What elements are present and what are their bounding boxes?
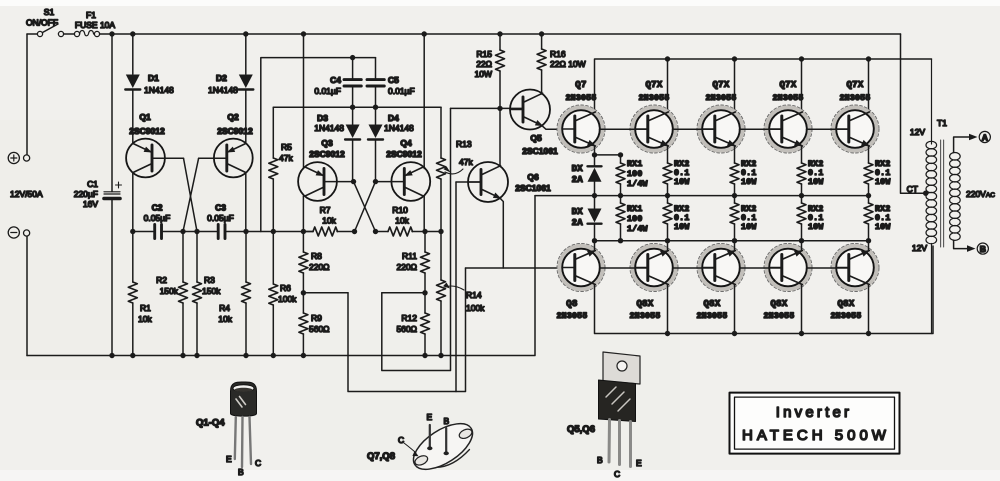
svg-text:2SC9012: 2SC9012 — [217, 126, 253, 136]
svg-text:C: C — [398, 435, 404, 445]
wire: C4/C5 top node to row — [261, 58, 376, 232]
svg-text:E: E — [636, 458, 642, 468]
svg-text:Q7,Q8: Q7,Q8 — [367, 451, 395, 462]
svg-text:B: B — [597, 455, 603, 465]
svg-text:DX: DX — [572, 164, 584, 174]
resistor RX2 0.1 10W (col2 lower) — [730, 196, 757, 241]
wire: emitter bus mid rail y=195.6 — [535, 195, 869, 197]
wire: top row base bus segments — [600, 128, 850, 130]
wire: Q6 base vertical to outer U — [455, 182, 457, 392]
resistor R2 150k — [179, 282, 188, 303]
junction dots on 107 row — [350, 105, 378, 110]
wire switch to fuse — [64, 33, 75, 35]
resistor RX2 0.1 10W (col1 lower) — [663, 196, 690, 241]
wire: bottom row emitter bus y=240.7 — [595, 240, 869, 242]
wire: bottom row emitter risers — [595, 241, 869, 251]
svg-text:Q8X: Q8X — [703, 299, 720, 309]
wire: Q1 collector down to node — [132, 173, 134, 232]
svg-text:12V/50A: 12V/50A — [10, 189, 43, 199]
svg-text:FUSE 10A: FUSE 10A — [75, 20, 115, 30]
svg-text:R2: R2 — [156, 275, 167, 285]
svg-text:E: E — [226, 454, 232, 464]
svg-text:2N3055: 2N3055 — [840, 94, 871, 103]
svg-text:0.1: 0.1 — [875, 214, 891, 223]
svg-text:2N3055: 2N3055 — [706, 94, 737, 103]
transistor Q8X 2N3055 (col 4) — [831, 244, 879, 292]
svg-text:B: B — [238, 467, 244, 477]
svg-text:2SC9012: 2SC9012 — [386, 149, 422, 159]
svg-text:1N4148: 1N4148 — [314, 123, 344, 133]
svg-text:R6: R6 — [280, 283, 291, 293]
svg-text:Q2: Q2 — [227, 112, 239, 122]
resistor RX2 0.1 10W (col2 upper) — [730, 146, 757, 196]
transistor Q8X 2N3055 (col 1) — [630, 244, 678, 292]
svg-text:R10: R10 — [392, 205, 408, 215]
wire: cross diagonal Q2 base to node — [183, 158, 199, 231]
svg-text:10k: 10k — [218, 314, 232, 324]
wire: ground bottom rail — [27, 196, 535, 356]
svg-text:1N4148: 1N4148 — [208, 85, 238, 95]
transformer T1 secondary winding — [950, 153, 961, 241]
transistor Q6 2SC1061 — [468, 162, 508, 202]
svg-text:D1: D1 — [148, 73, 159, 83]
resistor RX2 0.1 10W (col3 lower) — [797, 196, 824, 241]
svg-text:10k: 10k — [322, 216, 336, 226]
capacitor C5 0.01uF — [367, 58, 415, 108]
wire: C3 right to Q3 collector node — [227, 231, 313, 233]
svg-text:R8: R8 — [311, 251, 322, 261]
svg-text:R12: R12 — [401, 313, 417, 323]
svg-text:0.1: 0.1 — [741, 214, 757, 223]
svg-text:10W: 10W — [475, 69, 492, 79]
wire: divider node row y=292.8 left segment — [303, 292, 348, 294]
svg-text:Q5: Q5 — [530, 133, 542, 143]
junction dots on collector bus — [665, 331, 871, 336]
svg-text:C1: C1 — [87, 179, 98, 189]
svg-text:B: B — [444, 416, 450, 426]
svg-text:2A: 2A — [572, 218, 584, 228]
svg-text:1N4148: 1N4148 — [144, 85, 174, 95]
output terminal B — [954, 240, 989, 254]
svg-text:560Ω: 560Ω — [309, 324, 330, 334]
wire: R5/D3/D4/R13 row — [273, 106, 441, 108]
svg-text:R15: R15 — [476, 49, 492, 59]
svg-text:R11: R11 — [402, 251, 417, 261]
capacitor C4 0.01uF — [314, 58, 361, 108]
wire: Q5 emitter to Q7 base — [542, 126, 575, 129]
svg-text:10k: 10k — [138, 314, 152, 324]
junction dots on mid rail — [592, 193, 871, 198]
svg-text:10W: 10W — [674, 178, 690, 187]
junction dots at D3/D4 base nodes — [351, 179, 378, 184]
svg-text:Q5,Q6: Q5,Q6 — [567, 424, 595, 435]
svg-text:22Ω 10W: 22Ω 10W — [550, 59, 586, 69]
wire: Q8 base rail from outer U — [466, 267, 504, 269]
resistor R4 10k — [242, 282, 251, 303]
package drawing Q7,Q8 (TO-3) — [367, 412, 480, 478]
svg-text:B: B — [980, 244, 986, 254]
junction dots on divider nodes — [301, 290, 428, 295]
svg-text:10W: 10W — [674, 223, 690, 232]
transistor Q2 2SC9012 — [214, 139, 253, 178]
wire: node row y=231.5 left — [133, 231, 153, 233]
title box Inverter HATECH 500W — [730, 393, 900, 454]
battery positive terminal — [8, 34, 30, 164]
svg-text:Q8X: Q8X — [837, 299, 854, 309]
svg-text:12V: 12V — [910, 127, 925, 137]
svg-text:0.1: 0.1 — [674, 169, 690, 178]
resistor R11 220ohm — [396, 232, 429, 293]
junction dot C4 top — [350, 55, 355, 60]
svg-text:S1: S1 — [44, 7, 55, 17]
svg-text:Q7X: Q7X — [712, 80, 729, 90]
svg-text:R9: R9 — [311, 313, 322, 323]
resistor R6 100k — [269, 284, 278, 305]
package drawing Q1-Q4 (TO-92) — [196, 382, 261, 477]
wire: between C2 and C3 — [163, 231, 216, 233]
wire: bottom row collector bus y=333.5 — [595, 246, 934, 334]
svg-text:Q6: Q6 — [527, 172, 539, 182]
svg-text:2N3055: 2N3055 — [831, 312, 862, 321]
svg-text:100: 100 — [627, 215, 643, 224]
wire: Q7 emitter node — [595, 146, 621, 155]
svg-text:Q8: Q8 — [566, 299, 577, 309]
svg-text:16V: 16V — [83, 199, 98, 209]
wire: inner U route to Q5 base — [382, 108, 451, 370]
svg-text:2N3055: 2N3055 — [639, 94, 670, 103]
svg-text:0.1: 0.1 — [741, 169, 757, 178]
wire: Q6 base from left — [456, 181, 481, 183]
junction dots on top rail — [109, 31, 544, 36]
wire: cross diagonal Q4 base node to node A — [355, 182, 376, 232]
wire: bottom row collector drops — [668, 285, 869, 334]
wire: Q4 base stub to D4 node — [376, 181, 405, 183]
capacitor C3 0.05uF — [207, 203, 234, 239]
junction dots Q7 emitter node — [592, 152, 623, 157]
svg-text:2N3055: 2N3055 — [773, 94, 804, 103]
transistor Q7X 2N3055 (col 2) — [697, 105, 745, 153]
resistor RX1 100 1/4W (upper) — [616, 155, 648, 196]
svg-text:100k: 100k — [466, 303, 485, 313]
wire: Q6 collector up — [499, 108, 501, 166]
wire: +12V top rail — [100, 33, 901, 35]
svg-text:R14: R14 — [466, 290, 482, 300]
svg-text:CT: CT — [907, 184, 918, 194]
wire: cross diagonal Q3 base node to node B — [354, 182, 376, 232]
resistor R14 100k with pointer arrow — [437, 232, 486, 356]
svg-text:Q1-Q4: Q1-Q4 — [196, 418, 225, 429]
svg-text:47k: 47k — [459, 157, 473, 167]
svg-text:C: C — [614, 469, 620, 479]
svg-text:2SC9012: 2SC9012 — [309, 149, 345, 159]
svg-text:RX2: RX2 — [741, 160, 757, 169]
svg-text:Q7X: Q7X — [779, 80, 796, 90]
svg-text:10W: 10W — [875, 178, 891, 187]
resistor RX2 0.1 10W (col4 lower) — [864, 196, 891, 241]
diode D1 1N4148 — [125, 75, 140, 90]
resistor R8 220ohm — [299, 232, 330, 293]
transistor Q8 2N3055 — [557, 244, 605, 292]
svg-text:150k: 150k — [202, 286, 221, 296]
resistor RX2 0.1 10W (col3 upper) — [797, 146, 824, 196]
svg-text:560Ω: 560Ω — [396, 324, 417, 334]
resistor R16 22ohm 10W — [537, 34, 586, 94]
svg-text:Q7X: Q7X — [846, 80, 863, 90]
svg-text:10W: 10W — [808, 223, 824, 232]
svg-text:1/4W: 1/4W — [627, 224, 648, 234]
resistor R9 560ohm — [299, 293, 330, 356]
svg-text:C: C — [255, 458, 261, 468]
svg-text:C4: C4 — [330, 75, 341, 85]
svg-text:RX2: RX2 — [674, 205, 690, 214]
junction dots on node row — [130, 229, 444, 234]
svg-text:2N3055: 2N3055 — [630, 312, 661, 321]
svg-text:10W: 10W — [741, 223, 757, 232]
switch S1 — [26, 7, 64, 37]
fuse F1 — [74, 10, 115, 37]
svg-text:2N3055: 2N3055 — [697, 312, 728, 321]
svg-text:R16: R16 — [550, 49, 566, 59]
wire: Q6 emitter down and right to Q8 base rail — [500, 199, 575, 268]
resistor R12 560ohm — [396, 293, 429, 356]
svg-text:100k: 100k — [278, 294, 297, 304]
svg-text:12V: 12V — [912, 243, 927, 253]
svg-text:0.05µF: 0.05µF — [207, 213, 234, 223]
wire: D2/Q2 branch — [245, 34, 247, 74]
resistor R10 10k — [376, 205, 442, 236]
svg-text:2N3055: 2N3055 — [557, 312, 588, 321]
svg-text:2N3055: 2N3055 — [764, 312, 795, 321]
svg-text:R3: R3 — [204, 275, 215, 285]
svg-text:C3: C3 — [215, 203, 226, 213]
svg-text:2N3055: 2N3055 — [566, 94, 597, 103]
svg-text:R1: R1 — [140, 303, 151, 313]
svg-text:DX: DX — [572, 207, 584, 217]
svg-text:T1: T1 — [937, 118, 947, 128]
svg-text:D3: D3 — [317, 113, 328, 123]
resistor R13 47k with pointer arrow — [437, 107, 474, 231]
svg-text:F1: F1 — [86, 10, 96, 20]
svg-text:HATECH 500W: HATECH 500W — [742, 427, 890, 444]
resistor RX2 0.1 10W (col1 upper) — [663, 146, 690, 196]
resistor R7 10k — [303, 205, 354, 236]
transistor Q7X 2N3055 (col 1) — [630, 105, 678, 153]
svg-text:Q8X: Q8X — [770, 299, 787, 309]
svg-text:Q3: Q3 — [321, 138, 333, 148]
svg-text:Q1: Q1 — [139, 112, 151, 122]
transistor Q7 2N3055 — [557, 105, 605, 153]
svg-text:0.1: 0.1 — [875, 169, 891, 178]
svg-text:Q7X: Q7X — [645, 80, 662, 90]
svg-text:1/4W: 1/4W — [627, 179, 648, 189]
transistor Q7X 2N3055 (col 4) — [831, 105, 879, 153]
resistor R15 22ohm 10W — [475, 34, 505, 108]
transistor Q8X 2N3055 (col 2) — [697, 244, 745, 292]
output terminal A — [954, 131, 991, 152]
transistor Q7X 2N3055 (col 3) — [764, 105, 812, 153]
svg-text:C2: C2 — [152, 203, 163, 213]
svg-text:A: A — [982, 132, 988, 142]
svg-text:ON/OFF: ON/OFF — [26, 18, 58, 28]
transistor Q1 2SC9012 — [126, 139, 165, 178]
svg-text:220Ω: 220Ω — [396, 262, 417, 272]
diode D2 1N4148 — [238, 75, 253, 90]
svg-text:RX1: RX1 — [627, 205, 643, 214]
svg-text:D4: D4 — [388, 113, 399, 123]
svg-text:RX1: RX1 — [627, 160, 643, 169]
svg-text:C5: C5 — [388, 75, 399, 85]
svg-text:2SC1061: 2SC1061 — [522, 146, 558, 156]
battery negative terminal — [8, 227, 30, 356]
resistor RX2 0.1 10W (col4 upper) — [864, 146, 891, 196]
resistor R5 47k — [269, 107, 294, 231]
svg-text:220Ω: 220Ω — [309, 262, 330, 272]
wire: top rail corner down to transformer CT — [901, 34, 925, 193]
svg-text:RX2: RX2 — [875, 205, 891, 214]
svg-text:RX2: RX2 — [875, 160, 891, 169]
capacitor C2 0.05uF — [144, 203, 171, 239]
node CT center tap — [907, 184, 929, 196]
wire: divider node row y=292.8 right segment — [382, 292, 425, 294]
svg-text:2SC1061: 2SC1061 — [515, 183, 551, 193]
svg-text:Inverter: Inverter — [776, 404, 852, 421]
wire: D1/Q1 branch — [132, 34, 134, 74]
wire: Q7X collector drops — [668, 59, 869, 112]
svg-text:RX2: RX2 — [808, 160, 824, 169]
svg-text:0.1: 0.1 — [808, 214, 824, 223]
svg-text:R5: R5 — [281, 142, 292, 152]
svg-text:220µF: 220µF — [74, 189, 98, 199]
wire: Q2 collector down to node — [245, 173, 247, 232]
svg-text:22Ω: 22Ω — [476, 59, 492, 69]
svg-text:D2: D2 — [216, 73, 227, 83]
junction dots on bottom rail — [109, 353, 443, 358]
resistor R1 10k — [128, 282, 137, 303]
wire: Q1 base stub — [152, 157, 184, 159]
svg-text:R4: R4 — [219, 303, 230, 313]
diode DX 2A (lower) — [572, 196, 602, 241]
transistor Q4 2SC9012 — [386, 34, 430, 232]
transistor Q5 2SC1061 — [510, 90, 550, 130]
svg-text:10W: 10W — [741, 178, 757, 187]
diode DX 2A (upper) — [572, 155, 602, 196]
svg-text:100: 100 — [627, 170, 643, 179]
wire: outer U route to Q8 base — [348, 268, 466, 392]
svg-text:Q4: Q4 — [400, 138, 412, 148]
transformer T1 primary winding — [926, 59, 937, 334]
svg-text:0.1: 0.1 — [674, 214, 690, 223]
svg-text:RX2: RX2 — [808, 205, 824, 214]
svg-text:150k: 150k — [160, 286, 179, 296]
wire: cross diagonal Q1 base to node — [184, 158, 198, 231]
resistor R3 150k — [193, 282, 202, 303]
svg-text:10W: 10W — [808, 178, 824, 187]
diode D3 1N4148 — [314, 107, 360, 181]
svg-text:10W: 10W — [875, 223, 891, 232]
resistor RX1 100 1/4W (lower) — [616, 196, 648, 241]
svg-text:2A: 2A — [572, 175, 584, 185]
wire: output collector top rail y=59 — [595, 59, 932, 112]
capacitor C1 (electrolytic 220uF) — [104, 34, 122, 356]
svg-text:Q8X: Q8X — [636, 299, 653, 309]
svg-text:0.1: 0.1 — [808, 169, 824, 178]
svg-text:10k: 10k — [395, 216, 409, 226]
transistor Q3 2SC9012 — [298, 34, 345, 232]
svg-text:47k: 47k — [279, 153, 293, 163]
svg-text:0.01µF: 0.01µF — [314, 86, 341, 96]
junction dot Q5 base / R15 / Q6 collector — [497, 106, 502, 111]
wire: Q2 base stub — [199, 157, 227, 159]
junction dots on collector rail — [665, 56, 871, 61]
svg-text:RX2: RX2 — [741, 205, 757, 214]
svg-text:Q7: Q7 — [575, 80, 586, 90]
diode D4 1N4148 — [368, 107, 414, 181]
transformer T1 core — [941, 140, 944, 247]
svg-text:R13: R13 — [456, 139, 472, 149]
svg-text:0.01µF: 0.01µF — [388, 86, 415, 96]
svg-text:R7: R7 — [320, 205, 331, 215]
wire: bottom row base bus segments — [600, 267, 850, 269]
transistor Q8X 2N3055 (col 3) — [764, 244, 812, 292]
junction dots on emitter bus — [592, 238, 871, 243]
svg-text:1N4148: 1N4148 — [384, 123, 414, 133]
wire: Q5 base line — [451, 107, 524, 109]
wire: Q3 base stub to D3 node — [324, 181, 354, 183]
package drawing Q5,Q6 (TO-220) — [567, 352, 642, 479]
svg-text:RX2: RX2 — [674, 160, 690, 169]
svg-text:E: E — [427, 412, 433, 422]
svg-text:0.05µF: 0.05µF — [144, 213, 171, 223]
svg-text:2SC9012: 2SC9012 — [129, 126, 165, 136]
